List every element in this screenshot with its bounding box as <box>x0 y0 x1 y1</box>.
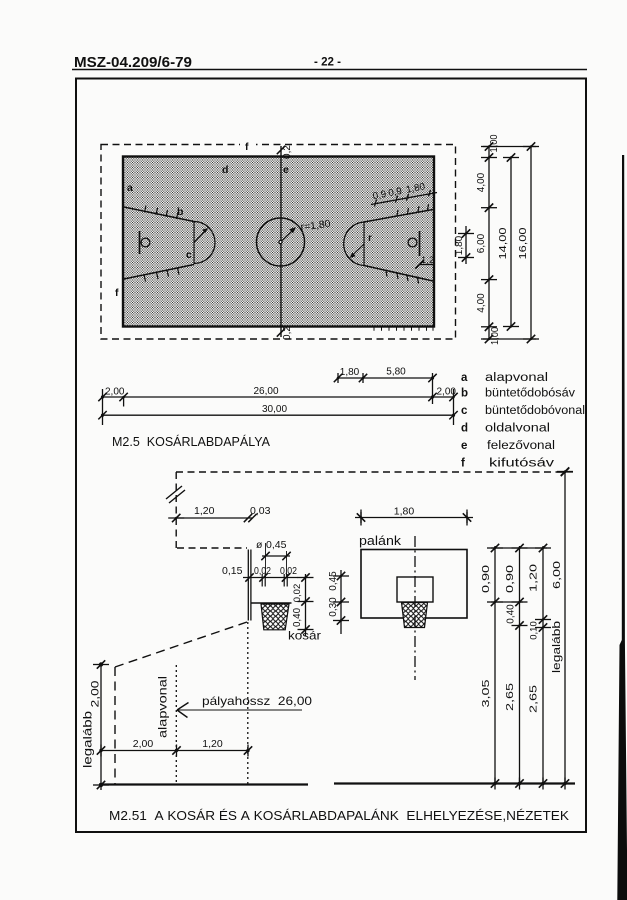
svg-text:2,65: 2,65 <box>504 683 516 711</box>
svg-text:1,00: 1,00 <box>489 134 500 152</box>
svg-text:pályahossz 26,00: pályahossz 26,00 <box>202 694 312 708</box>
svg-text:2,00: 2,00 <box>437 387 457 398</box>
svg-text:1,2: 1,2 <box>421 255 434 266</box>
svg-text:0,03: 0,03 <box>250 505 271 517</box>
svg-text:oldalvonal: oldalvonal <box>485 423 550 435</box>
svg-text:26,00: 26,00 <box>253 386 278 397</box>
svg-text:1,20: 1,20 <box>194 505 215 517</box>
svg-text:14,00: 14,00 <box>498 227 509 260</box>
svg-text:a: a <box>461 372 468 384</box>
svg-text:1,20: 1,20 <box>528 564 540 592</box>
svg-text:0,90: 0,90 <box>504 565 516 593</box>
svg-text:f: f <box>245 141 249 153</box>
svg-text:4,00: 4,00 <box>476 293 487 313</box>
svg-text:kosár: kosár <box>288 629 321 643</box>
svg-text:2,00: 2,00 <box>105 387 125 398</box>
svg-text:palánk: palánk <box>359 534 402 548</box>
svg-text:0,10: 0,10 <box>529 621 540 640</box>
svg-text:1,80: 1,80 <box>340 367 360 378</box>
svg-text:0,90: 0,90 <box>480 565 492 593</box>
svg-text:1,80: 1,80 <box>454 235 465 255</box>
svg-text:6,00: 6,00 <box>551 561 563 589</box>
svg-text:d: d <box>222 164 228 176</box>
svg-text:5,80: 5,80 <box>386 367 406 378</box>
svg-text:2,00: 2,00 <box>133 738 154 750</box>
svg-text:0,30: 0,30 <box>328 597 339 617</box>
svg-text:felezővonal: felezővonal <box>487 440 555 452</box>
svg-text:1,20: 1,20 <box>202 738 223 750</box>
svg-text:b: b <box>177 206 183 218</box>
svg-text:alapvonal: alapvonal <box>156 676 170 738</box>
svg-text:b: b <box>461 388 468 400</box>
svg-text:legalább: legalább <box>81 711 95 768</box>
svg-text:2,00: 2,00 <box>90 681 102 708</box>
svg-text:16,00: 16,00 <box>518 227 529 260</box>
svg-text:2,65: 2,65 <box>528 685 540 713</box>
svg-text:f: f <box>461 458 465 470</box>
svg-text:f: f <box>115 287 119 299</box>
svg-text:a: a <box>127 182 133 194</box>
svg-text:c: c <box>461 405 468 417</box>
svg-text:- 22 -: - 22 - <box>314 55 341 69</box>
svg-text:1,80: 1,80 <box>394 506 415 518</box>
svg-text:0,45: 0,45 <box>266 539 287 551</box>
svg-text:0,45: 0,45 <box>328 571 339 591</box>
svg-text:6,00: 6,00 <box>476 233 487 253</box>
svg-text:ø: ø <box>256 539 263 551</box>
svg-text:1,00: 1,00 <box>490 327 501 345</box>
svg-text:4,00: 4,00 <box>476 172 487 192</box>
svg-text:M2.51 A KOSÁR ÉS A KOSÁRLABDA: M2.51 A KOSÁR ÉS A KOSÁRLABDAPALÁNK ELHE… <box>109 808 569 823</box>
svg-text:M2.5 KOSÁRLABDAPÁLYA: M2.5 KOSÁRLABDAPÁLYA <box>112 434 270 449</box>
svg-text:e: e <box>461 440 467 452</box>
svg-text:c: c <box>186 249 192 261</box>
svg-text:legalább: legalább <box>551 621 563 673</box>
svg-text:d: d <box>461 423 468 435</box>
svg-text:30,00: 30,00 <box>262 404 287 415</box>
svg-text:0,02: 0,02 <box>292 584 303 603</box>
svg-text:3,05: 3,05 <box>480 679 492 707</box>
svg-text:büntetődobósáv: büntetődobósáv <box>485 388 575 400</box>
svg-text:büntetődobóvonal: büntetődobóvonal <box>485 405 585 417</box>
svg-text:alapvonal: alapvonal <box>485 372 548 384</box>
svg-text:0,40: 0,40 <box>506 604 517 624</box>
svg-text:kifutósáv: kifutósáv <box>489 458 554 470</box>
svg-text:r: r <box>368 232 372 244</box>
svg-text:0,2: 0,2 <box>282 145 293 159</box>
svg-text:0,15: 0,15 <box>222 565 243 577</box>
svg-text:0,40: 0,40 <box>292 607 303 627</box>
svg-text:e: e <box>283 164 289 176</box>
svg-text:MSZ-04.209/6-79: MSZ-04.209/6-79 <box>74 54 192 71</box>
svg-text:0,2: 0,2 <box>282 326 293 340</box>
